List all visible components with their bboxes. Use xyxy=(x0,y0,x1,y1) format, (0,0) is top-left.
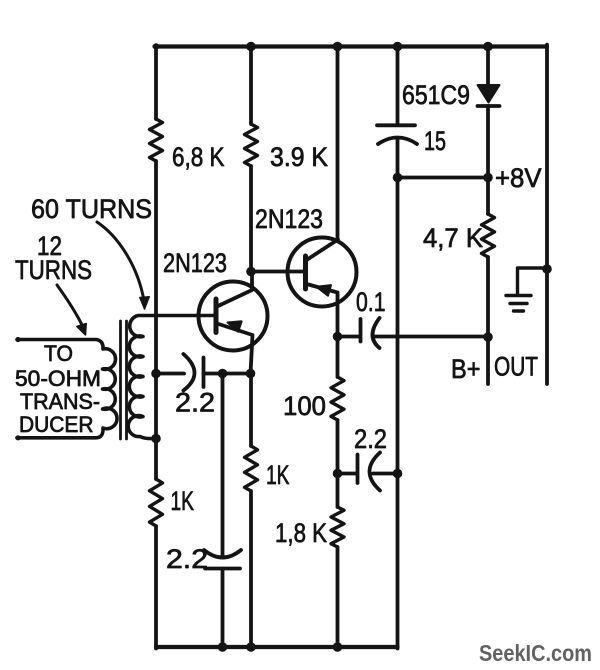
wire: left branch upper segment xyxy=(154,47,158,120)
svg-text:2N123: 2N123 xyxy=(163,248,227,278)
node: B+ junction xyxy=(483,332,493,342)
label R2 value 1K xyxy=(171,486,195,516)
resistor R2 1K (left) xyxy=(150,479,163,526)
wire: from 3.9K down to Q2 base node xyxy=(249,166,253,272)
svg-text:15: 15 xyxy=(424,126,446,156)
wire: decoupling branch down (x=397.5) xyxy=(396,178,400,649)
arrow: 12 TURNS pointer xyxy=(57,285,86,335)
svg-text:OUT: OUT xyxy=(494,352,538,382)
resistor R6 4.7K xyxy=(482,178,495,338)
capacitor C3 0.1 (output coupling) xyxy=(338,318,489,348)
node: top-left corner junction xyxy=(153,43,159,49)
label Q2 2N123 xyxy=(255,204,323,234)
label C2 value 15 xyxy=(424,126,446,156)
label C5 value 2.2 xyxy=(166,544,208,574)
svg-text:DUCER: DUCER xyxy=(19,412,94,437)
ground xyxy=(506,268,547,311)
wire: Q2 emitter down to 100 ohm xyxy=(336,337,340,378)
node: ground junction on right rail xyxy=(542,264,552,274)
wire: 3.9K branch from top rail xyxy=(249,47,253,125)
label TO 50-OHM TRANSDUCER xyxy=(15,341,101,437)
transformer T1 core xyxy=(121,321,127,439)
svg-text:1,8 K: 1,8 K xyxy=(275,518,327,548)
wire: B+ terminal bar xyxy=(486,337,490,384)
resistor R7 1K (right, Q1 emitter) xyxy=(245,374,258,649)
label C1 value 2.2 xyxy=(354,424,387,454)
capacitor C2 15 xyxy=(377,47,417,178)
node: emitter RC junction left xyxy=(333,469,343,479)
svg-text:SeekIC.com: SeekIC.com xyxy=(479,640,592,666)
wire: left branch middle segment xyxy=(154,161,158,479)
transformer T1 primary winding with leads xyxy=(15,337,117,441)
svg-text:1K: 1K xyxy=(171,486,195,516)
node: base cap junction on left branch xyxy=(151,369,161,379)
svg-text:60 TURNS: 60 TURNS xyxy=(31,194,152,224)
wire: Q2 collector branch from top rail xyxy=(336,47,340,241)
watermark SeekIC.com xyxy=(479,640,592,666)
node: +8V left junction xyxy=(393,173,403,183)
label Q1 2N123 xyxy=(163,248,227,278)
node: emitter RC junction right xyxy=(393,469,403,479)
node: secondary bottom junction xyxy=(151,434,161,444)
svg-text:+8V: +8V xyxy=(495,163,542,193)
label R1 value 6,8 K xyxy=(172,142,225,172)
node: top rail at Q2 collector branch xyxy=(333,42,343,52)
wire: top supply rail xyxy=(155,44,548,48)
svg-text:TURNS: TURNS xyxy=(15,255,92,285)
wire: right vertical rail xyxy=(545,45,549,384)
node: bottom rail at R7 xyxy=(246,642,256,652)
label +8V xyxy=(495,163,542,193)
svg-text:2.2: 2.2 xyxy=(175,388,215,418)
diode D1 651C9 xyxy=(478,47,500,178)
resistor R3 3.9K xyxy=(245,124,258,166)
label OUT xyxy=(494,352,538,382)
wire: Q2 base wire xyxy=(251,270,304,274)
transistor Q1 2N123 xyxy=(199,272,268,374)
node: top rail at D1 xyxy=(483,42,493,52)
svg-text:2N123: 2N123 xyxy=(255,204,323,234)
label R6 value 4,7 K xyxy=(423,223,483,253)
capacitor C1 2.2 (emitter bypass, x=337.5..397.5) xyxy=(338,453,398,491)
resistor R4 100 xyxy=(331,377,344,420)
svg-text:651C9: 651C9 xyxy=(402,80,470,110)
svg-text:2.2: 2.2 xyxy=(354,424,387,454)
svg-text:3.9 K: 3.9 K xyxy=(270,142,328,172)
svg-text:TO: TO xyxy=(44,341,73,366)
resistor R5 1.8K xyxy=(331,474,344,649)
svg-text:2.2: 2.2 xyxy=(166,544,208,574)
node: top rail at C2 xyxy=(393,42,403,52)
wire: left branch lower segment xyxy=(154,526,158,649)
label C3 value 0.1 xyxy=(356,287,386,317)
node: top rail at 3.9K branch xyxy=(246,42,256,52)
label R5 value 1.8 K xyxy=(275,518,327,548)
svg-text:4,7 K: 4,7 K xyxy=(423,223,483,253)
label B+ xyxy=(451,354,481,384)
wire: bottom rail xyxy=(156,645,398,649)
svg-text:TRANS-: TRANS- xyxy=(20,389,100,414)
resistor R1 6.8K xyxy=(150,119,163,161)
node: bottom rail at 1.8K xyxy=(333,642,343,652)
svg-text:0.1: 0.1 xyxy=(356,287,386,317)
label D1 651C9 xyxy=(402,80,470,110)
node: bottom rail at C5 xyxy=(218,642,228,652)
svg-text:B+: B+ xyxy=(451,354,481,384)
svg-text:6,8 K: 6,8 K xyxy=(172,142,225,172)
svg-text:50-OHM: 50-OHM xyxy=(15,366,101,391)
node: C4/C5 junction xyxy=(218,369,228,379)
transformer T1 secondary winding xyxy=(128,316,214,439)
label R4 value 100 xyxy=(283,391,326,421)
label R3 value 3.9 K xyxy=(270,142,328,172)
capacitor C4 2.2 (base-emitter) xyxy=(156,354,251,391)
arrow: 60 TURNS pointer xyxy=(97,222,149,309)
svg-text:1K: 1K xyxy=(266,460,290,490)
label 60 TURNS xyxy=(31,194,152,224)
capacitor C5 2.2 (bottom, x=222.5) xyxy=(204,374,241,649)
label R7 value 1K xyxy=(266,460,290,490)
wire: 100 ohm to lower cap node xyxy=(336,420,340,474)
wire: +8V rail xyxy=(398,176,489,180)
label C4 value 2.2 xyxy=(175,388,215,418)
svg-text:100: 100 xyxy=(283,391,326,421)
node: Q1 collector / Q2 base junction xyxy=(246,267,256,277)
node: Q1 emitter junction xyxy=(246,369,256,379)
label 12 TURNS xyxy=(15,231,92,285)
node: +8V right junction xyxy=(483,173,493,183)
node: Q2 emitter / output cap junction xyxy=(333,332,343,342)
transistor Q2 2N123 xyxy=(288,238,357,337)
